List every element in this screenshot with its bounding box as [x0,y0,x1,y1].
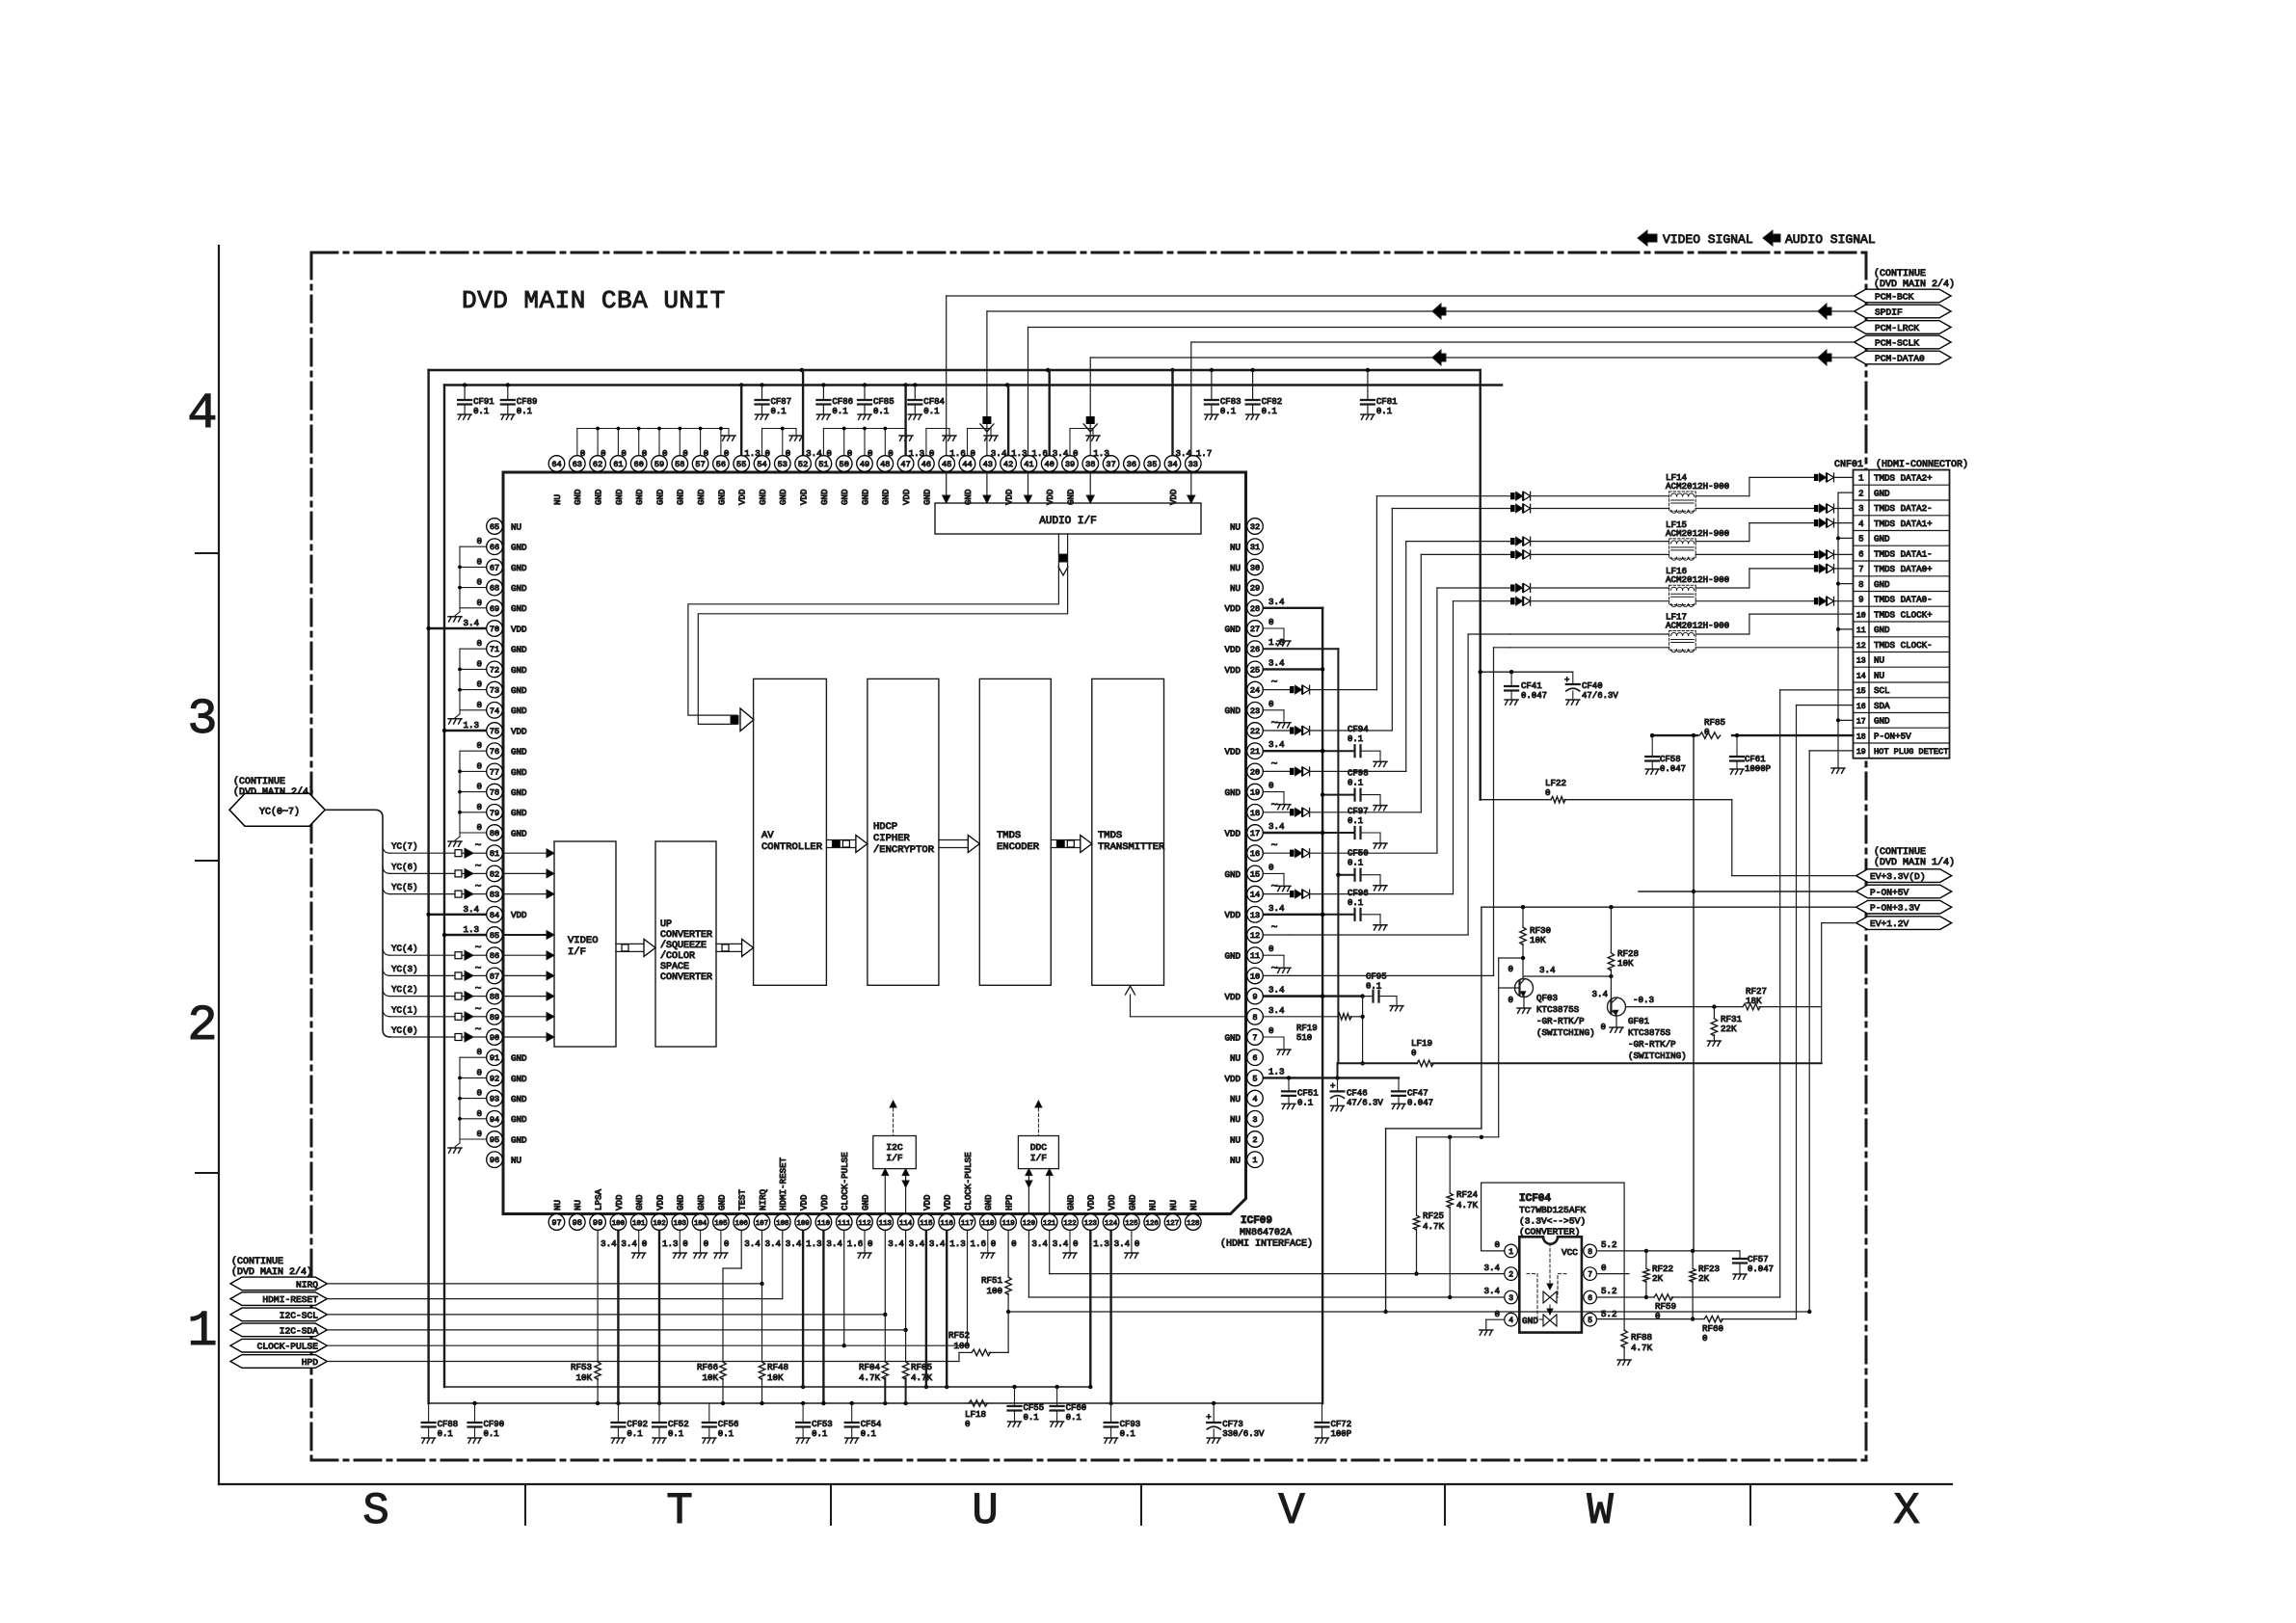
svg-text:83: 83 [490,891,499,900]
svg-text:0.1: 0.1 [873,407,889,416]
svg-text:97: 97 [551,1218,561,1228]
svg-text:0: 0 [724,448,730,459]
wire NIRQ line [327,1283,761,1285]
svg-text:0: 0 [1268,617,1274,627]
svg-text:10K: 10K [767,1372,784,1383]
svg-text:46: 46 [921,460,931,469]
pin 18 tilde mark [1271,800,1278,811]
svg-text:VDD: VDD [1107,1194,1117,1211]
svg-text:82: 82 [490,869,499,879]
svg-text:1.3: 1.3 [806,1238,822,1249]
svg-text:GND: GND [696,489,707,505]
svg-text:3.4: 3.4 [826,1238,842,1249]
svg-text:~: ~ [475,963,482,974]
svg-text:PCM-BCK: PCM-BCK [1875,291,1914,302]
capacitor CF83 0.1 [1205,370,1241,419]
pin 19 (right) [1224,781,1273,800]
svg-text:31: 31 [1250,543,1260,552]
svg-text:0.1: 0.1 [473,407,489,416]
pin 33 (top) [1186,448,1213,471]
pin 41 (top) [1021,448,1048,471]
pin 90 (left) [487,1029,503,1046]
svg-text:CF93: CF93 [1120,1420,1141,1429]
svg-text:TMDS DATA1-: TMDS DATA1- [1874,548,1933,559]
wire gnd stub pin 118 [981,1231,995,1259]
svg-text:9: 9 [1252,993,1257,1002]
border dash-dot right [1865,253,1868,1460]
svg-text:GND: GND [860,489,870,505]
svg-text:8: 8 [1252,1013,1257,1023]
pin 85 (left) [487,927,503,944]
svg-text:0: 0 [476,1067,482,1078]
wire pin 121 to DDC I/F [1046,1169,1053,1214]
svg-text:HOT PLUG DETECT: HOT PLUG DETECT [1874,747,1948,757]
legend VIDEO SIGNAL text [1663,232,1753,247]
svg-text:57: 57 [695,460,705,469]
wire pin 75 VDD 1.3 feed [442,720,487,732]
block AUDIO I/F [935,503,1201,534]
svg-text:0: 0 [826,448,832,459]
wire pin 87 into VIDEO I/F [503,971,555,980]
capacitor CF47 0.047 [1392,1078,1433,1108]
svg-text:0.1: 0.1 [923,407,939,416]
pin 91 (left) [487,1050,527,1066]
capacitor CF91 0.1 [458,386,494,420]
wire I2C I/F dashed up [890,1101,896,1136]
svg-text:CF56: CF56 [718,1420,739,1429]
pin 32 (right) [1230,519,1263,535]
ICF04 pin 3 [1505,1290,1518,1304]
svg-text:GND: GND [511,747,527,758]
flag EV+1.2V [1856,917,1952,930]
resistor RF51 100 [981,1275,1011,1314]
svg-text:3.4: 3.4 [1268,1005,1285,1016]
svg-text:NU: NU [1230,1094,1241,1104]
filter LF17 ACM2012H-900 [1666,612,1729,652]
svg-text:DDC: DDC [1030,1142,1048,1153]
svg-text:3.4: 3.4 [1268,657,1285,668]
svg-text:GND: GND [511,1074,527,1084]
svg-text:0: 0 [1494,1239,1500,1250]
svg-text:SPACE: SPACE [660,962,689,972]
flag PCM-SCLK [1855,335,1951,349]
column label V [1278,1486,1305,1536]
svg-text:YC(4): YC(4) [391,944,418,954]
svg-text:0: 0 [724,1238,730,1249]
svg-text:10K: 10K [1617,958,1634,969]
svg-text:RF51: RF51 [981,1275,1003,1286]
svg-text:100: 100 [986,1286,1002,1296]
pin 79 (left) [487,805,527,821]
pin 81 (left) [487,845,503,862]
svg-text:TMDS DATA1+: TMDS DATA1+ [1874,519,1933,529]
pin 103 (bottom) [672,1194,688,1249]
svg-text:0: 0 [1494,1309,1500,1319]
wire pin 117 CLOCK-PULSE [967,1231,969,1346]
svg-text:GND: GND [511,563,527,573]
svg-text:10K: 10K [575,1372,592,1383]
pin 13 (right) [1224,903,1285,922]
wire pin 52 VDD to 3.4V rail [802,370,804,456]
pin 124 (bottom) [1103,1194,1130,1249]
svg-text:1.6: 1.6 [847,1238,864,1249]
svg-text:+: + [1330,1081,1335,1091]
wire pin 55 VDD to 1.3V rail [740,386,742,456]
resistor RF52 100 [948,1312,1008,1362]
svg-text:47/6.3V: 47/6.3V [1347,1098,1383,1107]
svg-text:RF53: RF53 [571,1362,592,1372]
svg-text:330/6.3V: 330/6.3V [1222,1429,1265,1439]
flag P-ON+3.3V [1856,900,1952,914]
svg-text:32: 32 [1250,522,1260,532]
svg-text:CF73: CF73 [1222,1420,1243,1429]
svg-text:2: 2 [187,998,217,1054]
wire row to filter [1531,541,1669,543]
wire ICF04 VCC line [1596,1249,1740,1253]
junction on bus B [1108,1401,1112,1405]
svg-text:GND: GND [881,489,892,505]
junction on 3.4V rail [1170,368,1174,372]
svg-text:0: 0 [1268,781,1274,791]
wire base bias line [1417,1135,1499,1139]
svg-text:1000P: 1000P [1745,764,1771,774]
connector CNF01 body [1854,470,1950,758]
svg-text:71: 71 [490,645,499,654]
svg-text:0: 0 [580,448,586,459]
pin 83 (left) [487,886,503,902]
svg-text:117: 117 [961,1220,974,1228]
svg-text:GND: GND [1224,787,1241,798]
wire pin 85 VDD 1.3 feed [442,924,487,937]
svg-text:0: 0 [662,448,668,459]
capacitor CF88 0.1 [422,1403,459,1443]
svg-text:YC(1): YC(1) [391,1004,418,1015]
ICF04 pin values right [1601,1239,1617,1319]
column tick [1140,1484,1142,1525]
wire PCM-LRCK vertical to AUDIO I/F [1025,328,1032,504]
svg-text:AUDIO I/F: AUDIO I/F [1039,516,1096,527]
svg-text:36: 36 [1127,460,1136,469]
wire pin 34 VDD to 3.4V rail [1171,370,1173,456]
svg-text:VDD: VDD [1224,910,1241,920]
diode pair (TVS) on row 5 [1510,584,1531,593]
pin 111 (bottom) [836,1152,863,1249]
svg-text:14: 14 [1856,672,1866,680]
pin 8 (right) [1247,1005,1285,1024]
svg-text:CF91: CF91 [473,397,494,407]
pin 34 (top) [1164,448,1191,505]
svg-text:78: 78 [490,788,499,798]
pin 10 (right) [1247,968,1264,984]
svg-text:113: 113 [879,1220,892,1228]
pin 21 (right) [1224,739,1285,758]
bottom ruler line [219,1483,1952,1485]
svg-text:/SQUEEZE: /SQUEEZE [660,940,707,951]
svg-text:8: 8 [1588,1248,1592,1257]
svg-text:CONVERTER: CONVERTER [660,972,712,983]
block TMDS ENCODER [979,678,1051,985]
pin 80 (left) [487,825,527,841]
pin 63 (top) [570,448,586,505]
block UP CONVERTER [655,841,716,1047]
pin 95 (left) [487,1131,527,1148]
resistor RF23 2K [1690,1251,1720,1321]
svg-text:0.1: 0.1 [517,407,532,416]
resistor RF05 4.7K [902,1362,932,1403]
svg-text:HDMI-RESET: HDMI-RESET [778,1157,788,1211]
svg-text:TMDS DATA0+: TMDS DATA0+ [1874,564,1933,574]
svg-text:TEST: TEST [737,1188,748,1211]
wire TMDS pin 10 to filter row [1263,648,1510,976]
pin 20 tilde mark [1271,758,1278,770]
capacitor CF55 0.1 [1008,1387,1045,1426]
svg-text:T: T [666,1486,693,1536]
svg-text:GND: GND [511,583,527,594]
pin 37 (top) [1103,456,1119,472]
wire gnd stub pin 39 [1070,429,1100,456]
pin 88 (left) [487,988,503,1004]
wire gnd stub pin 46 [926,429,956,456]
column label W [1587,1486,1614,1536]
svg-text:(DVD MAIN 2/4): (DVD MAIN 2/4) [1874,279,1955,290]
transistor QF03 KTC3875S [1499,964,1534,1013]
wire gnd stub pin 27 [1263,628,1291,646]
svg-text:0: 0 [476,638,482,649]
svg-text:91: 91 [490,1053,499,1063]
flag NIRQ [230,1277,327,1290]
svg-text:CF84: CF84 [923,397,945,407]
svg-text:107: 107 [756,1220,768,1228]
pin 102 (bottom) [652,1194,679,1249]
wire connector ground bus [1831,492,1854,773]
pin 61 (top) [610,448,627,505]
junction on 1.3V rail [821,383,825,386]
pin 72 (left) [487,661,527,678]
svg-text:CLOCK-PULSE: CLOCK-PULSE [257,1342,319,1352]
svg-text:HPD: HPD [302,1357,319,1368]
svg-text:0: 0 [682,448,688,459]
svg-text:3.4: 3.4 [463,618,479,628]
svg-text:GND: GND [696,1194,707,1211]
pin 29 (right) [1230,579,1263,596]
wire PCM-LRCK horizontal [1028,327,1855,329]
flag PCM-LRCK [1855,321,1951,334]
svg-text:I/F: I/F [1030,1153,1048,1163]
svg-text:(CONTINUE: (CONTINUE [1874,268,1926,279]
svg-text:3.4: 3.4 [1268,985,1285,996]
svg-text:CF40: CF40 [1582,681,1603,691]
svg-text:NU: NU [1230,1134,1241,1145]
svg-text:58: 58 [675,460,684,469]
svg-text:I2C: I2C [886,1142,903,1153]
svg-text:85: 85 [490,931,499,941]
svg-text:~: ~ [1271,882,1278,893]
connector pin 10 TMDS CLOCK+ [1856,609,1933,620]
svg-text:66: 66 [490,543,499,552]
junction on bus B [760,1401,763,1405]
svg-text:CF95: CF95 [1366,972,1387,982]
svg-text:0: 0 [1702,1333,1708,1344]
svg-text:68: 68 [490,584,499,594]
pin 7 (right) [1224,1025,1273,1045]
svg-text:3.4: 3.4 [1539,965,1556,975]
pin 101 (bottom) [630,1194,647,1249]
row tick 4/3 [196,552,219,554]
svg-text:~: ~ [475,943,482,954]
svg-text:MN864702A: MN864702A [1240,1228,1292,1238]
wire pin 114 to I2C I/F [902,1169,909,1214]
wire I2C-SDA line [327,1329,905,1331]
svg-text:95: 95 [490,1135,499,1145]
svg-text:0: 0 [786,448,791,459]
pin 3 (right) [1230,1111,1263,1128]
svg-text:114: 114 [899,1220,913,1228]
svg-text:P-ON+5V: P-ON+5V [1870,887,1909,897]
svg-text:0: 0 [642,448,648,459]
legend video signal arrow [1638,230,1657,246]
pin 78 (left) [487,784,527,800]
resistor RF59 0 [1596,1294,1779,1321]
svg-text:3.4: 3.4 [1591,989,1608,999]
svg-text:0: 0 [847,448,853,459]
svg-text:0.1: 0.1 [1120,1429,1135,1439]
svg-text:38: 38 [1085,460,1095,469]
column label S [362,1486,389,1536]
wire TMDS pin 12 to filter row [1263,634,1510,935]
svg-text:CF81: CF81 [1376,397,1398,407]
svg-text:-GR-RTK/P: -GR-RTK/P [1536,1016,1585,1026]
svg-text:0: 0 [1073,448,1079,459]
wire TMDS pin 18 to filter row [1263,554,1510,816]
pin 119 (bottom) [1001,1194,1017,1249]
svg-text:9: 9 [1858,596,1863,605]
svg-text:0: 0 [765,448,771,459]
pin 117 (bottom) [959,1152,986,1249]
pin 76 (left) [487,743,527,759]
svg-text:87: 87 [490,971,499,981]
wire 3.4V to CF41/CF40 [1479,670,1573,674]
svg-text:112: 112 [858,1220,870,1228]
svg-text:4: 4 [187,386,217,442]
pin 51 (top) [815,448,832,505]
svg-text:CF46: CF46 [1347,1088,1368,1098]
svg-text:GND: GND [778,489,788,505]
svg-text:ACM2012H-900: ACM2012H-900 [1666,481,1729,492]
svg-text:0: 0 [476,536,482,546]
svg-text:(SWITCHING): (SWITCHING) [1628,1051,1687,1061]
connector pin 6 TMDS DATA1- [1858,548,1933,559]
pin 27 (right) [1224,617,1273,636]
ICF04 pin 4 [1505,1313,1518,1326]
pin 98 (bottom) [570,1200,586,1230]
svg-text:3.4: 3.4 [1268,821,1285,832]
svg-text:5: 5 [1858,535,1863,545]
svg-text:ACM2012H-900: ACM2012H-900 [1666,574,1729,585]
capacitor CF50 0.1 [1336,849,1387,891]
svg-text:67: 67 [490,563,499,572]
svg-text:GND: GND [511,1134,527,1145]
column tick [524,1484,526,1525]
pin 30 (right) [1230,559,1263,575]
svg-text:TMDS DATA2-: TMDS DATA2- [1874,503,1933,514]
svg-text:RF52: RF52 [948,1330,970,1341]
svg-text:28: 28 [1250,604,1260,614]
capacitor CF96 0.1 [1321,889,1387,930]
connector pin 5 GND [1858,534,1890,545]
wire gnd group pins 63-56 [577,427,735,456]
wire pin 47 VDD to 1.3V rail [904,386,906,456]
svg-text:7: 7 [1252,1033,1257,1043]
capacitor CF58 0.047 [1645,735,1686,774]
junction on bus B [472,1401,476,1405]
row label 3 [187,691,217,748]
svg-text:126: 126 [1146,1220,1159,1228]
svg-text:0.047: 0.047 [1407,1098,1433,1107]
svg-text:47: 47 [900,460,910,469]
svg-text:CF97: CF97 [1348,807,1369,816]
pin 11 (right) [1224,944,1273,963]
wire gnd stub pin 11 [1263,955,1291,972]
filter LF14 ACM2012H-900 [1666,472,1729,513]
svg-text:GND: GND [1874,579,1890,590]
wire TMDS pin 20 to filter row [1263,542,1510,776]
pin 59 (top) [652,448,668,505]
svg-text:3.4: 3.4 [601,1238,617,1249]
svg-text:TMDS DATA2+: TMDS DATA2+ [1874,473,1933,484]
svg-text:I2C-SCL: I2C-SCL [280,1310,319,1320]
wire HPD line [327,1361,959,1363]
pin 38 (top) [1082,448,1109,471]
junction on 1.3V rail [913,383,917,386]
wire pin 21 VDD to 3.4V bus [1263,749,1324,753]
svg-text:0: 0 [888,448,894,459]
svg-text:3: 3 [1508,1294,1513,1303]
svg-text:10K: 10K [1530,935,1546,945]
pin 58 (top) [672,448,688,505]
wire filter row 8 to connector pin 12 [1695,647,1853,649]
svg-text:3.4: 3.4 [744,1238,761,1249]
svg-text:I/F: I/F [886,1153,903,1163]
svg-text:~: ~ [475,1004,482,1016]
svg-text:GND: GND [860,1194,870,1211]
svg-text:4.7K: 4.7K [1423,1221,1445,1232]
wire TMDS pin 24 to filter row [1263,496,1510,694]
pin 5 (right) [1224,1066,1284,1085]
svg-text:GND: GND [511,1114,527,1125]
svg-text:NIRQ: NIRQ [296,1279,318,1290]
svg-text:VIDEO: VIDEO [568,935,599,946]
pin 16 tilde mark [1271,840,1278,852]
capacitor CF90 0.1 [468,1403,505,1443]
pin 9 (right) [1224,985,1285,1004]
svg-text:SCL: SCL [1874,685,1890,696]
wire ICF04 pin7 stub [1596,1273,1629,1275]
svg-text:RF25: RF25 [1423,1211,1444,1221]
pin 121 (bottom) [1041,1214,1068,1249]
svg-text:99: 99 [593,1218,602,1228]
svg-text:~: ~ [1271,963,1278,974]
wire SCL pin15 drop [1780,690,1854,1297]
svg-text:0.1: 0.1 [438,1429,453,1439]
pin 74 (left) [487,703,527,719]
svg-text:3.4: 3.4 [1268,903,1285,914]
legend audio signal arrow [1763,230,1780,246]
svg-text:(CONTINUE: (CONTINUE [233,776,285,787]
svg-text:U: U [972,1486,999,1536]
wire pin 25 VDD to 3.4V bus [1263,667,1324,671]
svg-text:11: 11 [1856,626,1866,635]
svg-text:GND: GND [634,489,645,505]
